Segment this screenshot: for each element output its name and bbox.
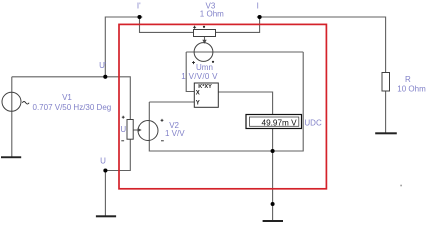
source V2 arrowhead [138, 128, 142, 132]
wire Y input from V2 top [149, 101, 194, 103]
ground bar below V1 [1, 156, 21, 158]
sensor U box [127, 120, 133, 140]
wire U sensor to V2 arrow [133, 129, 138, 131]
wire V3 to Umn arrow [204, 37, 206, 41]
wire R stem to ground [385, 91, 387, 133]
source Umn circle U1 [194, 43, 213, 62]
svg-text:R: R [405, 75, 411, 84]
svg-text:I: I [257, 2, 259, 11]
svg-text:UDC: UDC [304, 119, 322, 128]
ground bar below U node [96, 215, 116, 217]
wire top rail left from U' up to node I' [105, 17, 142, 77]
svg-text:0.707 V/50 Hz/30 Deg: 0.707 V/50 Hz/30 Deg [33, 103, 112, 112]
ground bar below R [375, 132, 397, 134]
source Umn dot mark [212, 61, 214, 63]
junction dot meter bottom rail [271, 149, 275, 153]
node I dot [258, 15, 262, 19]
svg-text:U: U [100, 156, 106, 165]
svg-text:V1: V1 [62, 93, 72, 102]
resistor V3 plus mark [193, 26, 196, 29]
node U dot [103, 168, 107, 172]
red measurement box [119, 24, 326, 188]
wire Umn through horizontal [186, 51, 303, 53]
svg-text:49.97m V: 49.97m V [262, 119, 298, 128]
sensor U plus mark [122, 116, 125, 119]
wire V1 top to node U' [12, 76, 106, 78]
source V2 circle [138, 121, 158, 141]
resistor V3 dot mark [203, 26, 205, 28]
svg-text:X: X [196, 90, 200, 96]
stray dot artifact [400, 185, 402, 187]
wire V3 bypass loop right [216, 17, 260, 32]
svg-text:U: U [120, 125, 126, 134]
meter UDC inner box [250, 117, 299, 126]
svg-text:1 Ohm: 1 Ohm [200, 10, 224, 19]
svg-text:Umn: Umn [196, 63, 213, 72]
source V2 plus mark [161, 119, 164, 122]
wire V3 bypass loop left [140, 17, 194, 32]
resistor V3 body [194, 30, 216, 37]
multiplier box K*XY [194, 83, 218, 107]
sensor U minus mark [121, 140, 124, 142]
node U' dot [103, 75, 107, 79]
source Umn arrowhead [202, 40, 206, 44]
source Umn plus mark [192, 61, 195, 64]
wire X input from Umn left [186, 52, 194, 92]
wire top rail right from node I to R branch [257, 17, 386, 73]
svg-text:1 V/V/0 V: 1 V/V/0 V [181, 72, 218, 81]
ground bar below meter branch [263, 220, 283, 222]
svg-text:U': U' [99, 61, 107, 70]
svg-text:Y: Y [196, 100, 200, 106]
wire U' to U sensor branch [105, 77, 130, 216]
wire multiplier output down through meter to ground [218, 92, 272, 221]
meter UDC outer box [246, 115, 302, 129]
wire V2 branch bottom rail and right edge to Umn [149, 52, 303, 151]
svg-text:10 Ohm: 10 Ohm [397, 85, 426, 94]
node I' dot [137, 15, 141, 19]
svg-text:I': I' [137, 1, 141, 10]
source V1 circle [2, 92, 21, 111]
source V2 minus mark [161, 140, 164, 142]
source V1 tilde [22, 102, 29, 105]
svg-text:K*XY: K*XY [198, 84, 212, 90]
svg-text:1 V/V: 1 V/V [165, 129, 185, 138]
wire V1 vertical through source to ground [11, 77, 13, 157]
junction dot above middle ground [271, 202, 275, 206]
resistor R body [382, 73, 390, 92]
